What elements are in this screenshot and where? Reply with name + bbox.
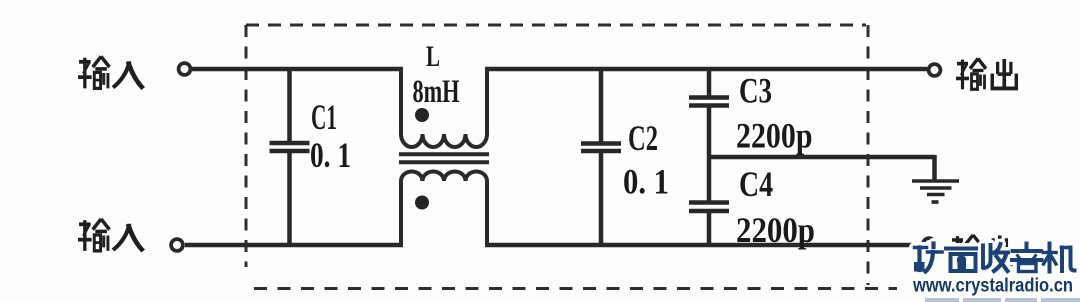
svg-text:C1: C1 bbox=[311, 97, 337, 137]
svg-text:www.crystalradio.cn: www.crystalradio.cn bbox=[912, 276, 1073, 297]
svg-text:C4: C4 bbox=[739, 164, 773, 204]
svg-text:C2: C2 bbox=[628, 118, 658, 158]
svg-text:0. 1: 0. 1 bbox=[310, 135, 351, 175]
svg-text:2200p: 2200p bbox=[736, 116, 813, 156]
svg-text:0. 1: 0. 1 bbox=[623, 162, 669, 202]
svg-text:8mH: 8mH bbox=[413, 74, 460, 110]
svg-text:2200p: 2200p bbox=[736, 210, 815, 250]
svg-text:L: L bbox=[426, 40, 440, 73]
svg-text:C3: C3 bbox=[739, 71, 772, 111]
